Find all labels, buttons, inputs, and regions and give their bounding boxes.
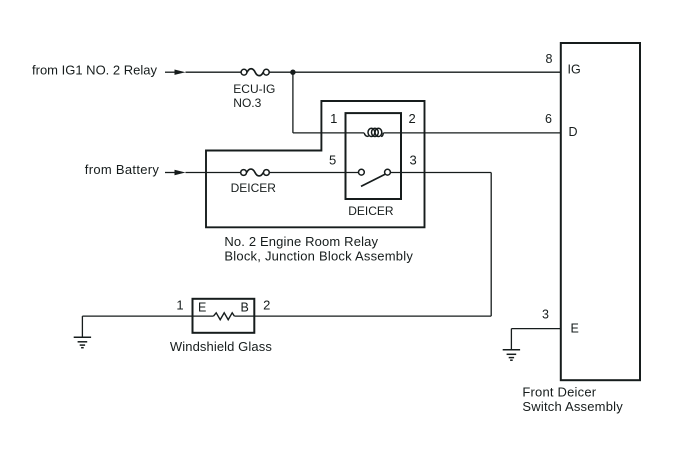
wire coil feed (junction to relay pin 1): [293, 132, 364, 134]
svg-text:5: 5: [329, 152, 336, 167]
svg-text:DEICER: DEICER: [348, 204, 394, 218]
svg-text:ECU-IG: ECU-IG: [233, 82, 275, 96]
wire battery (to fuse DEICER): [186, 172, 241, 174]
coil left wire inside relay: [383, 132, 560, 134]
ground 1: [74, 337, 91, 347]
relay switch contact left: [359, 169, 365, 175]
svg-text:6: 6: [545, 112, 552, 126]
wire junction down: [292, 72, 294, 133]
svg-text:2: 2: [409, 111, 416, 126]
svg-text:1: 1: [176, 297, 183, 312]
arrowhead into top wire: [175, 70, 186, 75]
svg-text:1: 1: [330, 111, 337, 126]
svg-text:DEICER: DEICER: [231, 181, 277, 195]
wire pin 3 to ground 2: [511, 328, 560, 330]
svg-text:2: 2: [263, 297, 270, 312]
relay coil: [364, 128, 383, 136]
wire to ground 1: [81, 316, 83, 337]
deicer relay inner box: [346, 113, 402, 199]
svg-text:3: 3: [410, 152, 417, 167]
wire battery (fuse to switch): [269, 172, 358, 174]
svg-text:E: E: [571, 322, 579, 336]
fuse DEICER: [241, 169, 270, 176]
arrowhead into battery wire: [175, 170, 186, 175]
svg-text:8: 8: [546, 52, 553, 66]
wire relay pin 3 down: [490, 173, 492, 317]
resistor (windshield glass heater): [214, 313, 235, 320]
svg-text:E: E: [198, 301, 206, 315]
svg-text:Front Deicer: Front Deicer: [522, 385, 596, 400]
fuse ECU-IG NO.3: [241, 69, 269, 76]
svg-text:Block, Junction Block Assembly: Block, Junction Block Assembly: [224, 248, 413, 263]
No.2 engine room relay block outline: [206, 101, 425, 227]
svg-text:from IG1 NO. 2 Relay: from IG1 NO. 2 Relay: [32, 63, 157, 78]
wire from IG1 arrow lead: [165, 71, 177, 73]
junction dot: [290, 70, 295, 75]
wire glass circuit right: [234, 315, 491, 317]
windshield glass box: [193, 299, 255, 333]
wire ground 2 drop: [510, 329, 512, 350]
wire top (to fuse ECU-IG): [186, 71, 242, 73]
svg-text:IG: IG: [568, 63, 581, 77]
ground 2: [503, 350, 520, 360]
svg-text:No. 2 Engine Room Relay: No. 2 Engine Room Relay: [224, 234, 378, 249]
wire battery arrow lead: [165, 172, 177, 174]
relay switch contact right: [385, 169, 391, 175]
wire glass circuit left: [82, 315, 213, 317]
svg-text:3: 3: [542, 307, 549, 321]
wire top (fuse to switch assembly pin 8): [269, 71, 561, 73]
wire switch to corner: [390, 172, 491, 174]
svg-text:B: B: [241, 300, 249, 314]
svg-text:from Battery: from Battery: [85, 162, 160, 177]
relay switch blade: [361, 174, 385, 186]
front deicer switch assembly box: [561, 43, 640, 380]
svg-text:D: D: [569, 125, 578, 139]
svg-text:Switch Assembly: Switch Assembly: [522, 399, 623, 414]
svg-text:NO.3: NO.3: [233, 96, 261, 110]
svg-text:Windshield Glass: Windshield Glass: [170, 339, 272, 354]
